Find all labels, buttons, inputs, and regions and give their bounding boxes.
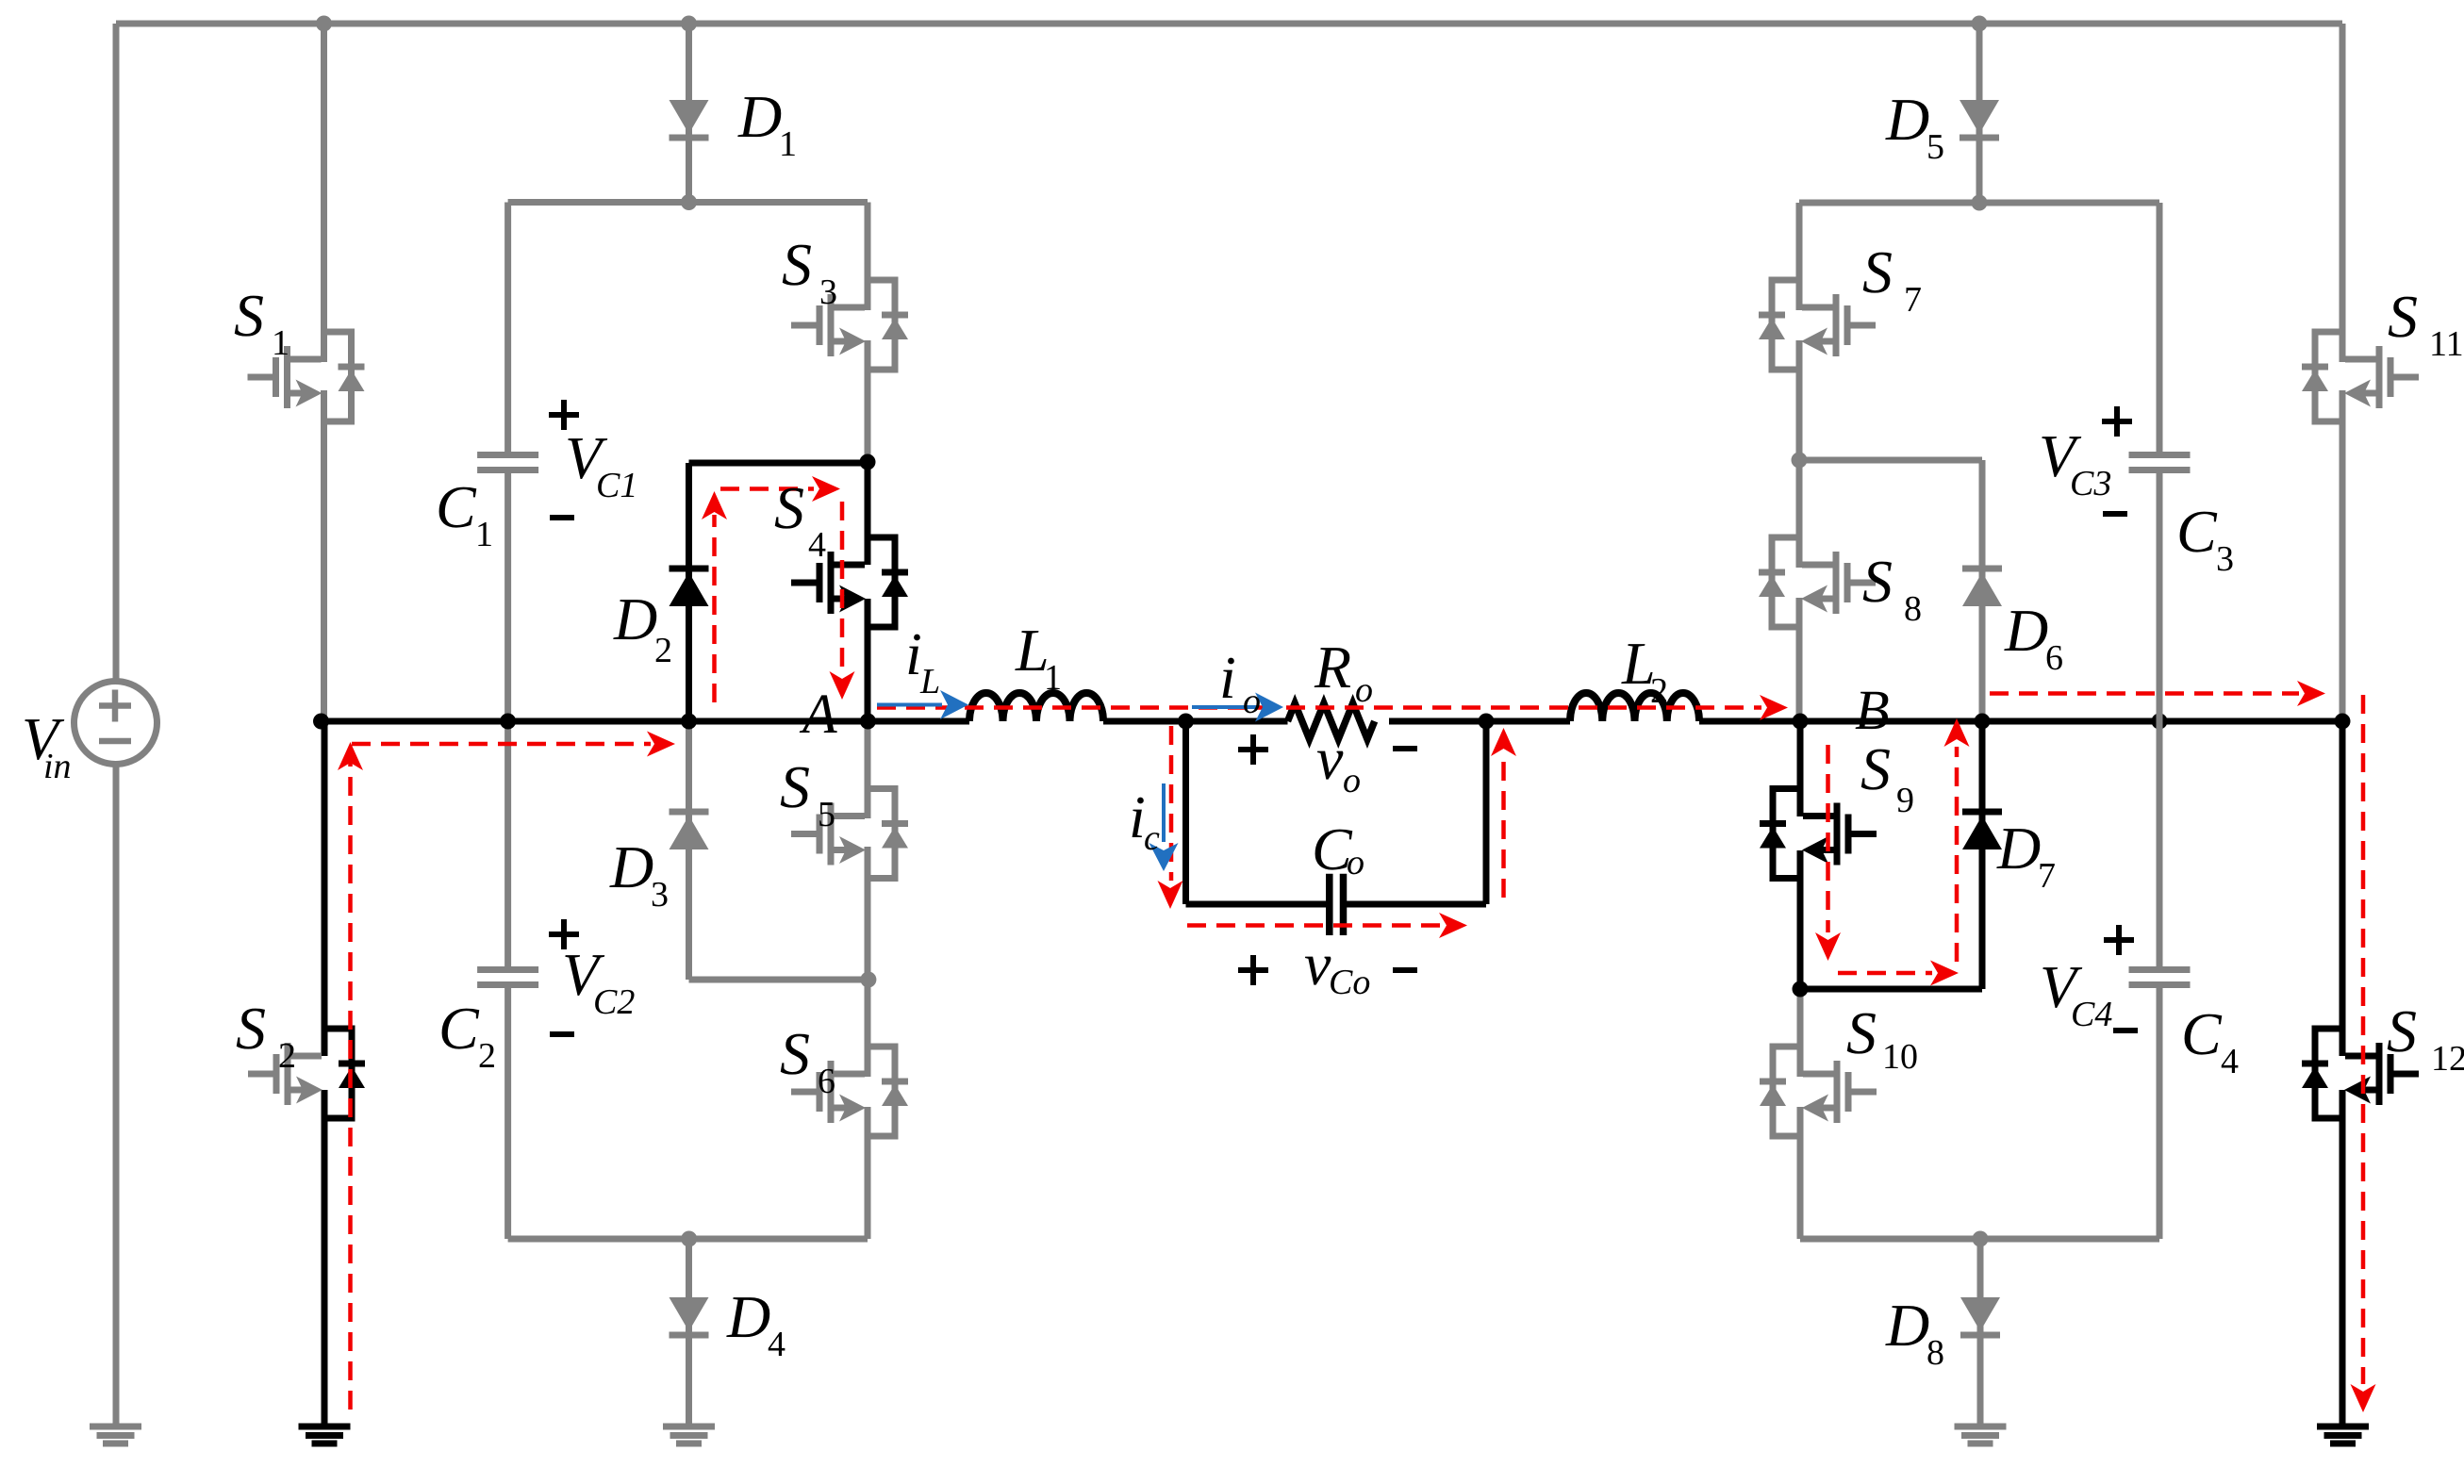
svg-text:C3: C3 xyxy=(2070,464,2111,503)
svg-text:2: 2 xyxy=(478,1036,496,1076)
svg-text:o: o xyxy=(1243,682,1261,721)
svg-text:C1: C1 xyxy=(596,466,637,505)
svg-text:c: c xyxy=(1144,818,1160,858)
svg-text:11: 11 xyxy=(2429,324,2464,364)
svg-text:5: 5 xyxy=(1927,127,1944,167)
svg-text:C: C xyxy=(2181,1000,2223,1067)
svg-text:5: 5 xyxy=(818,795,835,834)
svg-text:6: 6 xyxy=(2045,638,2063,678)
svg-text:D: D xyxy=(609,833,653,900)
svg-text:D: D xyxy=(737,83,782,150)
svg-text:R: R xyxy=(1314,634,1351,701)
svg-text:S: S xyxy=(2388,283,2418,350)
svg-text:9: 9 xyxy=(1896,781,1914,820)
svg-text:S: S xyxy=(234,282,264,349)
svg-text:3: 3 xyxy=(2216,539,2234,579)
svg-text:o: o xyxy=(1343,761,1361,800)
svg-text:S: S xyxy=(236,995,266,1062)
svg-text:8: 8 xyxy=(1927,1333,1944,1373)
svg-text:S: S xyxy=(774,474,804,541)
svg-text:o: o xyxy=(1347,843,1364,882)
svg-text:10: 10 xyxy=(1882,1037,1918,1077)
svg-text:2: 2 xyxy=(1650,671,1668,711)
svg-text:S: S xyxy=(1862,548,1893,615)
svg-text:C4: C4 xyxy=(2071,995,2112,1034)
svg-text:12: 12 xyxy=(2431,1039,2464,1079)
svg-text:1: 1 xyxy=(475,515,493,554)
svg-text:C2: C2 xyxy=(593,982,635,1022)
svg-text:S: S xyxy=(2387,998,2417,1064)
svg-text:2: 2 xyxy=(654,631,672,670)
svg-text:4: 4 xyxy=(808,525,826,565)
svg-text:S: S xyxy=(780,753,810,820)
svg-text:3: 3 xyxy=(651,875,669,915)
svg-text:L: L xyxy=(919,662,940,701)
svg-text:D: D xyxy=(1996,815,2041,882)
svg-text:1: 1 xyxy=(1044,658,1062,698)
svg-text:1: 1 xyxy=(272,323,289,363)
svg-text:S: S xyxy=(1846,999,1877,1066)
svg-text:A: A xyxy=(799,683,837,745)
svg-text:S: S xyxy=(1862,239,1893,305)
svg-text:D: D xyxy=(726,1283,770,1350)
svg-text:6: 6 xyxy=(818,1062,835,1101)
svg-text:i: i xyxy=(1219,644,1236,711)
svg-text:D: D xyxy=(1885,1292,1929,1359)
svg-text:S: S xyxy=(780,1020,810,1087)
svg-text:S: S xyxy=(1860,735,1891,802)
svg-text:C: C xyxy=(2176,498,2218,565)
svg-text:C: C xyxy=(436,473,477,540)
svg-text:D: D xyxy=(2004,597,2048,664)
svg-text:7: 7 xyxy=(1904,280,1922,320)
svg-text:o: o xyxy=(1355,670,1373,710)
svg-text:3: 3 xyxy=(819,272,837,312)
svg-text:4: 4 xyxy=(2221,1042,2239,1081)
svg-text:C: C xyxy=(438,995,480,1062)
svg-text:8: 8 xyxy=(1904,589,1922,629)
svg-text:v: v xyxy=(1304,931,1331,998)
svg-text:B: B xyxy=(1855,679,1890,741)
svg-text:D: D xyxy=(613,585,657,652)
svg-text:v: v xyxy=(1316,725,1344,792)
svg-text:1: 1 xyxy=(779,124,797,164)
svg-text:4: 4 xyxy=(768,1325,786,1364)
svg-text:S: S xyxy=(782,231,812,298)
svg-text:in: in xyxy=(43,747,72,786)
svg-text:2: 2 xyxy=(278,1036,296,1076)
svg-text:7: 7 xyxy=(2038,856,2056,896)
svg-text:D: D xyxy=(1885,86,1929,153)
svg-text:Co: Co xyxy=(1329,963,1370,1002)
